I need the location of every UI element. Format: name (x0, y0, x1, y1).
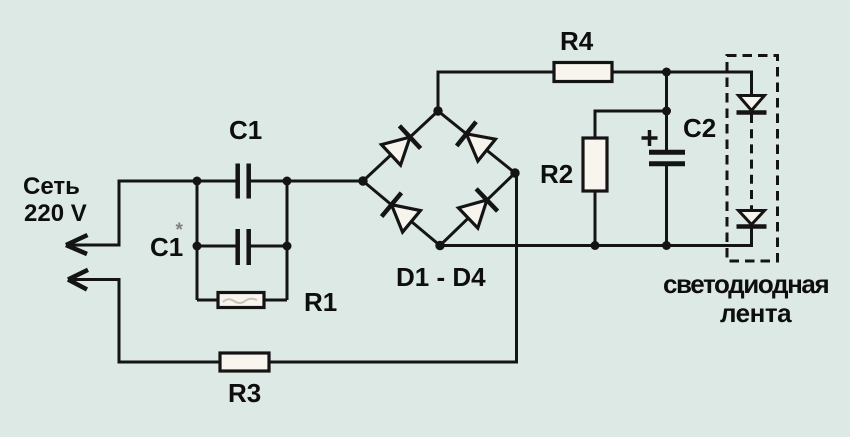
svg-text:D1 - D4: D1 - D4 (396, 262, 486, 292)
svg-text:R1: R1 (304, 287, 337, 317)
capacitor C1 plates (238, 164, 249, 199)
svg-text:*: * (176, 220, 184, 241)
node C2 bottom junction (662, 241, 671, 250)
wire R3 to right AC vertical (269, 174, 517, 362)
wire parallel branch right vertical (286, 181, 289, 300)
wire LED strip inner vertical dashed (750, 114, 753, 211)
wire R1 row left (197, 299, 218, 302)
svg-text:светодиодная: светодиодная (663, 269, 828, 299)
LED VD1 (737, 96, 767, 113)
svg-text:лента: лента (720, 298, 792, 328)
diode D4 lower-right (457, 189, 497, 229)
svg-text:Сеть: Сеть (23, 173, 80, 200)
node R2 top junction (662, 107, 671, 116)
wire bridge diamond (363, 111, 515, 246)
resistor R1 (218, 293, 264, 308)
arrow mains lower (68, 270, 88, 290)
arrow mains upper (66, 235, 88, 254)
node bridge top (433, 106, 442, 115)
diode D2 upper-right (457, 122, 497, 162)
wire C1* row left (197, 245, 236, 248)
svg-text:220 V: 220 V (24, 200, 87, 227)
wire R1 row right (264, 299, 287, 302)
wire C2 top (665, 72, 668, 150)
svg-text:C2: C2 (683, 113, 716, 143)
capacitor C2 plates (649, 152, 685, 164)
resistor R2 (583, 138, 607, 191)
node B junction (283, 177, 292, 186)
node bridge right (510, 168, 519, 177)
diode D1 upper-left (380, 126, 420, 166)
svg-text:C1: C1 (229, 115, 262, 145)
node R2 bottom junction (591, 241, 600, 250)
wire R2 bottom (594, 191, 597, 246)
node B2 junction (283, 242, 292, 251)
node bridge left (358, 176, 367, 185)
wire R4 to LED strip top (612, 72, 752, 96)
resistor R3 (220, 353, 269, 371)
wire mains lower terminal (68, 280, 220, 363)
LED strip dashed outline (727, 56, 778, 262)
wire C1* row right (251, 245, 288, 248)
wire bottom DC bus (440, 228, 752, 246)
diode D3 lower-left (382, 193, 422, 233)
node bridge bottom (435, 241, 444, 250)
wire C2 bottom (665, 166, 668, 246)
svg-text:R3: R3 (228, 378, 261, 408)
node A2 junction (193, 242, 202, 251)
svg-text:R4: R4 (560, 26, 594, 56)
resistor R4 (554, 63, 612, 82)
wire bridge top node to R4 (438, 72, 554, 111)
wire mains upper terminal to C1 network (66, 181, 236, 245)
wire C1 right plate to bridge left corner (251, 180, 364, 183)
wire R2 top branch (595, 111, 667, 138)
capacitor C2 polarity plus (642, 130, 658, 146)
node R4 out junction (662, 68, 671, 77)
LED VD2 (737, 211, 767, 227)
wire parallel branch left vertical (196, 181, 199, 300)
svg-text:R2: R2 (540, 159, 573, 189)
node A junction (193, 177, 202, 186)
capacitor C1* plates (238, 229, 249, 265)
